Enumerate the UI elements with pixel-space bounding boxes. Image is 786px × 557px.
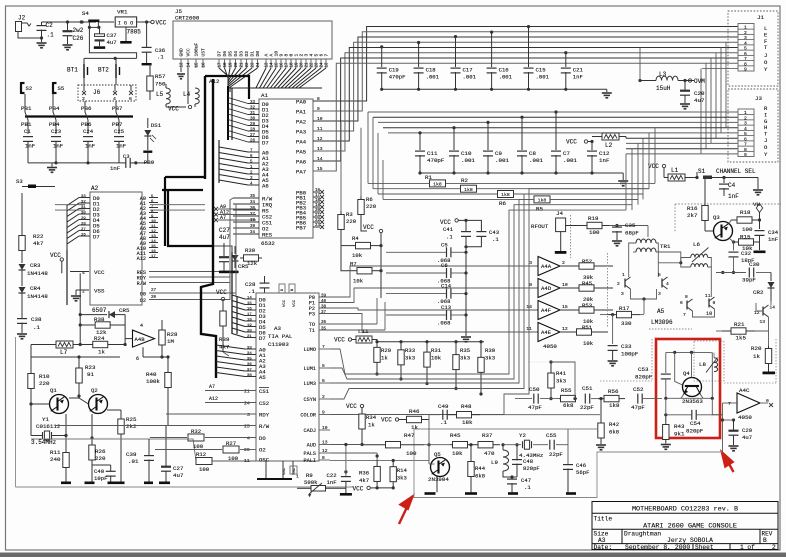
svg-text:D5: D5: [228, 51, 234, 57]
svg-text:4.43MHz: 4.43MHz: [519, 452, 544, 459]
wire O2 line R27: [155, 449, 222, 451]
svg-text:10k: 10k: [353, 278, 364, 285]
svg-text:20: 20: [151, 296, 157, 300]
svg-text:VCC: VCC: [216, 289, 227, 296]
svg-text:31: 31: [81, 206, 86, 210]
svg-text:9: 9: [322, 409, 325, 415]
svg-text:C40: C40: [94, 468, 105, 475]
svg-text:6: 6: [744, 136, 747, 142]
svg-text:Q2: Q2: [91, 387, 98, 394]
svg-text:6k8: 6k8: [475, 473, 485, 480]
svg-text:C52: C52: [633, 386, 644, 393]
capacitor C10 .001: [452, 126, 455, 129]
svg-text:10k: 10k: [583, 340, 594, 347]
pin stub: [187, 59, 189, 68]
svg-text:34: 34: [250, 231, 256, 235]
pin stub: [315, 59, 317, 68]
svg-text:28: 28: [250, 128, 256, 132]
svg-text:C14: C14: [441, 283, 452, 290]
svg-text:1nF: 1nF: [110, 165, 120, 172]
svg-text:T1: T1: [309, 328, 315, 334]
svg-text:C24: C24: [83, 128, 94, 135]
svg-text:R30: R30: [245, 247, 256, 254]
A3 D fan: [232, 295, 245, 299]
svg-text:10pF: 10pF: [94, 475, 107, 482]
svg-text:.1: .1: [440, 419, 447, 426]
svg-text:20: 20: [301, 62, 305, 68]
svg-text:C33: C33: [621, 343, 632, 350]
svg-text:VCC: VCC: [346, 403, 357, 410]
J1-J3 shared verticals: [725, 42, 727, 128]
svg-text:PB4: PB4: [49, 105, 60, 112]
svg-text:4: 4: [744, 126, 747, 132]
svg-text:33: 33: [81, 195, 86, 199]
svg-text:100: 100: [199, 466, 210, 473]
svg-text:12: 12: [322, 448, 328, 454]
svg-text:C46: C46: [576, 462, 586, 469]
svg-text:3k3: 3k3: [460, 355, 470, 362]
svg-text:1k5: 1k5: [736, 335, 747, 342]
PALS PALI wires: [330, 452, 377, 454]
svg-text:A12: A12: [209, 78, 220, 85]
resistor R25 2k2: [120, 410, 122, 417]
svg-text:2: 2: [744, 115, 747, 121]
svg-text:R46: R46: [409, 408, 420, 415]
ground bar: [219, 271, 239, 274]
svg-text:D7: D7: [259, 335, 266, 342]
svg-text:12k: 12k: [247, 260, 258, 267]
svg-text:1N4148: 1N4148: [27, 293, 48, 300]
svg-text:A4D: A4D: [541, 285, 552, 292]
node line: [666, 397, 713, 399]
thick bus horiz 2: [162, 189, 203, 191]
svg-text:1: 1: [744, 110, 747, 116]
svg-text:A1: A1: [261, 92, 268, 99]
svg-text:C23: C23: [51, 128, 61, 135]
svg-text:LUM1: LUM1: [304, 366, 316, 372]
svg-text:220: 220: [346, 218, 357, 225]
svg-text:100: 100: [742, 226, 753, 233]
svg-text:10: 10: [151, 220, 156, 224]
pin stub: [180, 59, 182, 68]
capacitor C29 4u7: [732, 418, 735, 421]
svg-text:R33: R33: [405, 347, 415, 354]
svg-text:VCC: VCC: [363, 224, 374, 231]
svg-text:R37: R37: [482, 432, 493, 439]
svg-text:1 of: 1 of: [740, 544, 755, 551]
svg-text:4u7: 4u7: [107, 39, 117, 46]
svg-text:6532: 6532: [261, 240, 275, 247]
transistor A5 pins 12 14 13: [762, 307, 764, 316]
svg-text:C25: C25: [114, 128, 124, 135]
cap row1 ground rail: [382, 88, 607, 90]
svg-text:2: 2: [744, 30, 747, 36]
ground: [461, 337, 471, 342]
svg-text:Y1: Y1: [42, 416, 49, 423]
svg-text:DS1: DS1: [151, 122, 162, 129]
svg-text:1k8: 1k8: [433, 182, 442, 188]
resistor R22 4k7: [21, 210, 23, 233]
resistor R41 3k3: [550, 362, 552, 371]
transistor pair A5 left: [624, 279, 626, 288]
svg-text:15uH: 15uH: [656, 85, 671, 92]
svg-text:330: 330: [621, 320, 632, 327]
buffer A4A 4050: [538, 257, 560, 276]
svg-text:1k8: 1k8: [501, 192, 510, 198]
svg-text:Q3: Q3: [713, 214, 720, 221]
svg-text:PB4: PB4: [49, 121, 60, 128]
svg-text:56pF: 56pF: [576, 469, 589, 476]
svg-text:2: 2: [82, 289, 85, 295]
svg-text:L9: L9: [491, 459, 498, 466]
svg-text:24: 24: [321, 62, 325, 68]
svg-text:C27: C27: [219, 227, 230, 234]
svg-text:R11: R11: [50, 449, 61, 456]
svg-text:500k: 500k: [304, 479, 318, 486]
svg-text:1nF: 1nF: [25, 143, 35, 150]
svg-text:36: 36: [321, 321, 327, 325]
pin: [738, 28, 754, 30]
svg-text:C53: C53: [638, 366, 649, 373]
svg-text:2w2: 2w2: [73, 27, 84, 34]
svg-text:29: 29: [250, 123, 256, 127]
svg-text:Date:: Date:: [594, 544, 613, 551]
thick bus vertical main b: [201, 79, 216, 378]
svg-text:7: 7: [683, 312, 686, 318]
svg-text:4u7: 4u7: [219, 234, 230, 241]
svg-text:DO: DO: [259, 435, 266, 442]
svg-text:39pF: 39pF: [742, 277, 756, 284]
capacitor C43 .1: [466, 220, 481, 231]
wire OSC line R12: [150, 439, 196, 461]
svg-text:September 8, 2000: September 8, 2000: [625, 544, 690, 551]
svg-text:R45: R45: [450, 432, 461, 439]
svg-text:UST: UST: [201, 48, 207, 57]
capacitor C17 .001: [454, 35, 457, 38]
svg-text:CR5: CR5: [119, 307, 130, 314]
pin stub: [270, 59, 272, 68]
bus line 9 (gnd): [702, 68, 738, 70]
svg-text:.001: .001: [495, 157, 509, 164]
svg-text:47pF: 47pF: [528, 404, 542, 411]
inductor L2: [602, 133, 619, 140]
svg-text:1k: 1k: [411, 424, 418, 431]
svg-text:S2: S2: [26, 85, 33, 92]
svg-text:C27: C27: [173, 465, 184, 472]
svg-text:1: 1: [744, 25, 747, 31]
pin: [738, 65, 754, 67]
resistor R14 3k3: [392, 461, 394, 467]
pin stub: [224, 59, 226, 68]
svg-text:22pF: 22pF: [549, 451, 563, 458]
red highlight box around Q4 oscillator: [656, 339, 720, 438]
cap row2 ground rail: [420, 172, 623, 174]
wire VCC column: [380, 233, 382, 298]
svg-text:21: 21: [306, 62, 310, 68]
svg-text:10k: 10k: [452, 450, 463, 457]
pin: [738, 140, 754, 142]
svg-text:L7: L7: [60, 349, 68, 356]
svg-text:MOTHERBOARD CO12283 rev. B: MOTHERBOARD CO12283 rev. B: [632, 506, 738, 514]
svg-text:4050: 4050: [543, 343, 557, 350]
svg-text:R35: R35: [460, 347, 470, 354]
svg-text:C29: C29: [742, 427, 752, 434]
svg-text:21: 21: [315, 214, 321, 218]
svg-text:R48: R48: [461, 403, 472, 410]
svg-text:220: 220: [95, 455, 106, 462]
svg-text:Q1: Q1: [50, 387, 57, 394]
svg-text:4: 4: [247, 436, 250, 442]
svg-text:9k1: 9k1: [674, 431, 685, 438]
svg-text:28: 28: [81, 222, 86, 226]
wire: [53, 94, 56, 134]
svg-text:C55: C55: [546, 432, 557, 439]
svg-text:VCC: VCC: [440, 219, 451, 226]
ground rail: [28, 162, 122, 164]
svg-text:VCC: VCC: [293, 299, 297, 307]
svg-text:19: 19: [230, 62, 234, 68]
svg-text:3: 3: [658, 291, 661, 297]
svg-text:L4: L4: [183, 91, 191, 98]
svg-text:10: 10: [322, 425, 328, 431]
svg-text:C11903: C11903: [268, 341, 289, 348]
thick PB bus: [25, 115, 133, 117]
svg-text:3: 3: [247, 412, 250, 418]
svg-text:J3: J3: [755, 95, 762, 102]
svg-text:COLOR: COLOR: [300, 413, 316, 419]
svg-text:O2: O2: [140, 298, 146, 304]
svg-text:3k3: 3k3: [556, 378, 566, 385]
wire ctrl verticals: [229, 200, 231, 300]
diode CR4 1N4148: [21, 270, 23, 286]
svg-text:23: 23: [316, 62, 320, 68]
bus wires PA to J1: [313, 27, 738, 102]
pin: [738, 114, 754, 116]
svg-text:C1: C1: [24, 128, 31, 135]
capacitor C19 470pF: [380, 45, 383, 48]
svg-text:R44: R44: [475, 465, 486, 472]
pin: [738, 49, 754, 51]
svg-text:38: 38: [247, 374, 252, 378]
svg-text:C51: C51: [582, 385, 593, 392]
svg-text:13: 13: [760, 319, 766, 325]
svg-text:2k2: 2k2: [126, 423, 137, 430]
svg-text:14: 14: [151, 240, 156, 244]
resistor R33 3k3: [399, 340, 402, 343]
wire fan D pins to bus: [219, 68, 228, 86]
bus wires to J3: [368, 111, 738, 113]
svg-text:C13: C13: [441, 304, 451, 311]
svg-text:.1: .1: [248, 288, 255, 295]
capacitor C5 .068: [447, 247, 451, 257]
pin stub: [300, 59, 302, 68]
wire fan J5 left pins: [180, 68, 182, 72]
svg-text:L5: L5: [156, 91, 164, 98]
svg-text:34: 34: [247, 352, 252, 356]
A3 top pins: [279, 284, 285, 293]
capacitor C2: [37, 26, 47, 31]
resistor R10 220: [30, 357, 32, 370]
svg-text:6: 6: [680, 300, 683, 306]
svg-text:C39: C39: [126, 451, 137, 458]
svg-text:VCC: VCC: [334, 337, 345, 344]
svg-text:1k8: 1k8: [538, 198, 547, 204]
svg-text:C18: C18: [426, 67, 436, 74]
svg-text:3k3: 3k3: [485, 355, 495, 362]
svg-text:C17: C17: [463, 67, 473, 74]
svg-text:47pF: 47pF: [631, 404, 645, 411]
capacitor C33 100pF: [612, 315, 614, 344]
svg-text:C41: C41: [443, 226, 454, 233]
wire down to enclosure: [722, 403, 724, 452]
staircase bus2 left verticals: [367, 112, 369, 183]
capacitor C12 1nF: [591, 142, 593, 151]
svg-text:100pF: 100pF: [621, 351, 639, 358]
capacitor C18 .001: [417, 41, 420, 44]
dotted line modulator top: [675, 203, 781, 205]
capacitor C34 1nF: [759, 220, 761, 229]
svg-text:3k3: 3k3: [405, 355, 415, 362]
svg-text:VCC: VCC: [50, 252, 61, 259]
svg-text:C35: C35: [625, 222, 636, 229]
svg-text:VCC: VCC: [648, 163, 659, 170]
pin stub: [305, 59, 307, 68]
svg-text:1nF: 1nF: [768, 236, 778, 243]
svg-text:21: 21: [247, 335, 252, 339]
svg-text:.1: .1: [47, 32, 55, 39]
svg-text:1: 1: [296, 474, 299, 480]
svg-text:14: 14: [770, 305, 776, 311]
svg-text:4: 4: [744, 40, 747, 46]
svg-text:2N3563: 2N3563: [682, 398, 703, 405]
svg-text:D4: D4: [233, 51, 239, 57]
corner verticals up to bus2: [625, 154, 627, 210]
svg-text:.1: .1: [446, 234, 453, 241]
svg-text:27: 27: [250, 134, 256, 138]
pin stub: [290, 59, 292, 68]
svg-text:VCC: VCC: [156, 19, 167, 26]
svg-text:CHANNEL SEL: CHANNEL SEL: [716, 168, 756, 175]
capacitor C16 .001: [490, 30, 493, 33]
svg-text:PA6: PA6: [296, 158, 306, 165]
A3 A fan: [216, 345, 245, 349]
svg-text:7: 7: [728, 401, 731, 407]
svg-text:R28: R28: [167, 331, 178, 338]
svg-text:5: 5: [658, 272, 661, 278]
svg-text:35: 35: [250, 195, 256, 199]
svg-text:RES: RES: [262, 231, 273, 238]
svg-text:2: 2: [322, 394, 325, 400]
svg-text:9: 9: [529, 282, 532, 288]
svg-text:4: 4: [666, 281, 669, 287]
svg-text:C38: C38: [31, 316, 42, 323]
svg-text:OSC: OSC: [259, 457, 270, 464]
svg-text:13: 13: [266, 62, 270, 68]
ground Q5: [436, 476, 438, 492]
svg-text:R43: R43: [674, 423, 685, 430]
svg-text:C37: C37: [107, 32, 117, 39]
svg-text:820pF: 820pF: [635, 374, 653, 381]
svg-text:6507: 6507: [92, 307, 107, 314]
svg-text:23: 23: [252, 62, 256, 68]
svg-text:BT2: BT2: [98, 67, 109, 74]
svg-text:7805: 7805: [127, 29, 142, 36]
thick bus A1 D-fan bundle: [227, 86, 229, 140]
capacitor C15 .001: [527, 25, 530, 28]
svg-text:PB1: PB1: [21, 105, 32, 112]
wire: [25, 94, 28, 134]
wire P0-P3 long lines to 4050: [345, 266, 538, 297]
svg-text:17: 17: [151, 255, 156, 259]
svg-text:100: 100: [589, 229, 600, 236]
capacitor C4 1nF: [723, 178, 725, 184]
capacitor C9 .001: [486, 121, 489, 124]
svg-text:10k: 10k: [352, 252, 363, 259]
Q4 base feed: [691, 352, 693, 377]
svg-text:R21: R21: [734, 321, 745, 328]
svg-text:A12: A12: [209, 396, 218, 402]
svg-text:6: 6: [136, 356, 139, 362]
svg-text:16: 16: [247, 307, 252, 311]
svg-text:R26: R26: [95, 448, 106, 455]
buffer A4F 4050: [538, 301, 560, 320]
inductor L7: [56, 341, 73, 348]
svg-text:VAC: VAC: [283, 467, 287, 475]
svg-text:LM3096: LM3096: [651, 319, 673, 326]
A1 D pin fan: [228, 98, 248, 104]
svg-text:C43: C43: [489, 229, 499, 236]
inductor L4: [195, 88, 199, 104]
svg-text:ATARI 2600 GAME CONSOLE: ATARI 2600 GAME CONSOLE: [643, 523, 737, 531]
thick bus vertical left b: [168, 190, 214, 246]
svg-text:R34: R34: [366, 414, 377, 421]
svg-text:26: 26: [81, 233, 86, 237]
pin stub: [320, 59, 322, 68]
svg-text:18: 18: [224, 62, 228, 68]
pin: [738, 135, 754, 137]
svg-text:.1: .1: [157, 54, 164, 61]
svg-text:LUM3: LUM3: [304, 381, 316, 387]
svg-text:4: 4: [82, 270, 85, 276]
svg-text:220: 220: [366, 203, 377, 210]
svg-text:24: 24: [244, 401, 250, 407]
svg-text:10k: 10k: [431, 355, 442, 362]
svg-text:220: 220: [39, 380, 50, 387]
diode CR5: [234, 246, 236, 254]
svg-text:1k8: 1k8: [464, 187, 473, 193]
capacitor C38 .1: [21, 293, 23, 318]
svg-text:CS2: CS2: [259, 400, 269, 407]
pin stub: [218, 59, 220, 68]
diode CR2: [770, 273, 772, 282]
svg-text:3.54MHz: 3.54MHz: [31, 439, 57, 446]
svg-text:J: J: [764, 52, 767, 59]
svg-text:PA7: PA7: [296, 168, 306, 175]
svg-text:.001: .001: [463, 74, 477, 81]
svg-text:C54: C54: [690, 420, 701, 427]
svg-text:18: 18: [291, 62, 295, 68]
pin: [738, 129, 754, 131]
svg-text:O2: O2: [259, 447, 266, 454]
svg-text:R18: R18: [740, 209, 751, 216]
svg-text:20: 20: [315, 209, 321, 213]
svg-text:21: 21: [244, 389, 250, 395]
svg-text:.001: .001: [426, 74, 440, 81]
capacitor C46 56pF: [567, 429, 569, 465]
resistor R30 3k3: [479, 340, 482, 343]
pin stub: [235, 59, 237, 68]
svg-text:C30: C30: [749, 261, 760, 268]
